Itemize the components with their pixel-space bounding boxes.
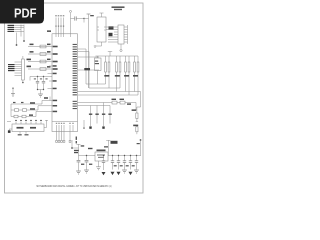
- resistor RP3b: [119, 56, 121, 88]
- wire J4 bottom ticks: [20, 132, 26, 134]
- schematic sheet border frame: [5, 3, 144, 193]
- ground VR1: [96, 167, 101, 170]
- label net RB right: [132, 109, 137, 111]
- connector J1 pin bars: [8, 25, 15, 32]
- wire J4 top ticks: [16, 122, 41, 125]
- wire crystal net: [30, 77, 52, 81]
- label pin 88.5: [53, 88, 57, 90]
- node J2 bottom dot: [22, 82, 24, 84]
- label VR1: [97, 150, 106, 152]
- ground CIN1: [76, 171, 81, 174]
- ground Y1: [94, 46, 96, 47]
- resistor RS2: [120, 101, 125, 104]
- resistor RP3a: [116, 56, 118, 92]
- label U2: [95, 61, 99, 65]
- wire J3 pin leads: [106, 27, 118, 42]
- node J5 net dot: [71, 147, 73, 149]
- node pad x103.5: [102, 126, 104, 128]
- wire regulator output bus: [108, 155, 141, 157]
- label J5 pin numbers: [56, 122, 74, 125]
- resistor RP2b: [108, 56, 110, 88]
- connector J2 pin bars: [8, 64, 15, 71]
- wire USB row3: [11, 112, 52, 117]
- label small under flag: [104, 146, 108, 147]
- ferrite FB3: [14, 115, 18, 118]
- label VIN: [81, 145, 93, 149]
- node J3 circle: [120, 49, 122, 51]
- resistor R1 row: [28, 46, 52, 48]
- wire USB shield stub: [7, 120, 11, 122]
- resistor RS1: [112, 101, 117, 104]
- label CB values: [114, 165, 135, 166]
- wire J2 top stub: [22, 56, 24, 59]
- resistor RB vertical: [136, 113, 138, 119]
- wire J1 pin leads: [14, 25, 24, 31]
- wire J1 vertical bus: [21, 25, 24, 41]
- power flag VIN: [77, 144, 81, 155]
- capacitor CB3: [124, 156, 126, 170]
- ground COUT1 dark: [102, 172, 106, 175]
- wire bus row y88: [89, 87, 120, 89]
- wire stub column x110: [109, 106, 111, 124]
- label VR1 inside text: [97, 154, 105, 158]
- wire stub x84: [83, 120, 85, 127]
- wire USB row1: [11, 101, 52, 105]
- wire RA bottom tick: [136, 132, 138, 134]
- label power stub: [137, 143, 140, 144]
- wire series row y102.5: [78, 103, 137, 111]
- wire RB bottom tick: [136, 119, 138, 122]
- ground CIN2: [84, 170, 89, 173]
- label U1 top pin numbers: [55, 15, 64, 26]
- ground CB2 dark: [117, 172, 121, 175]
- label stub x97: [95, 114, 98, 115]
- label stub x110: [108, 114, 111, 115]
- power flag left small: [12, 89, 14, 94]
- power flag rail VCC2: [108, 52, 112, 57]
- IC U1 body: [52, 34, 78, 132]
- label C2 C3: [34, 78, 48, 79]
- label vertical net left of regulator: [76, 137, 77, 144]
- wire VR1 gnd pin: [98, 161, 100, 167]
- oscillator Y1 body: [97, 17, 106, 42]
- resistor RP4b: [128, 56, 130, 95]
- node crystal dots: [37, 76, 38, 77]
- label sheet note text: [112, 6, 125, 10]
- connector J2 body: [22, 59, 25, 80]
- wire J4 right lead: [44, 120, 48, 127]
- label net 70: [84, 68, 90, 70]
- wire regulator input: [79, 155, 96, 157]
- label J5 nets: [74, 150, 79, 153]
- capacitor C1: [71, 18, 85, 20]
- IC U1 right pin name column: [73, 44, 77, 109]
- ground caps: [38, 94, 43, 97]
- wire U1 top pins: [56, 18, 64, 38]
- resistor RP5b: [137, 56, 139, 95]
- wire J3 bottom drop: [120, 44, 122, 49]
- power flag 3V3: [106, 140, 110, 155]
- wire bus row y91.5: [78, 92, 141, 108]
- label pin 81: [53, 80, 57, 82]
- label RP2: [104, 75, 109, 77]
- wire U1 right pin fanout to x86: [78, 49, 87, 84]
- resistor RP5a: [134, 56, 136, 92]
- wire C2 C3 join: [38, 90, 44, 94]
- resistor RA vertical: [136, 127, 138, 132]
- wire U2 bottom: [97, 71, 99, 85]
- wire J4 left lead: [9, 129, 12, 130]
- node C2 C3 dots2: [37, 89, 38, 90]
- label USB row1: [13, 102, 35, 104]
- wire stub column x97: [96, 106, 98, 124]
- wire stub column x90.5: [90, 106, 92, 127]
- node J5 pads: [56, 141, 71, 143]
- component K2 dark block: [109, 33, 113, 36]
- oscillator Y1 pin ticks: [97, 27, 106, 30]
- connector J3 body: [118, 25, 124, 44]
- label stub x103.5: [102, 114, 105, 115]
- wire U1 top pin 5: [70, 13, 72, 37]
- connector J5 pin ticks inside IC bottom: [57, 125, 74, 132]
- label U1: [47, 30, 51, 32]
- ground CB1 dark: [111, 172, 115, 175]
- power flag rail top: [87, 13, 91, 15]
- label rail: [90, 15, 94, 16]
- capacitor CIN2: [86, 156, 88, 170]
- power stub right edge: [140, 141, 142, 156]
- IC U1 left pin stub 73.5: [48, 73, 53, 75]
- label R3: [27, 59, 58, 63]
- wire IC feed stub: [49, 97, 51, 101]
- label pin 66: [53, 65, 57, 67]
- capacitor CB2: [118, 156, 120, 170]
- IC U1 left pin labels lower: [53, 100, 58, 113]
- wire U2 top: [97, 56, 99, 58]
- label USB row2: [30, 108, 35, 110]
- wire series row y105.5: [78, 105, 111, 107]
- label pin 73.5: [53, 73, 57, 75]
- node C1 junction: [83, 18, 84, 19]
- IC U1 left pin stub 66: [49, 65, 52, 67]
- wire net XTAL out: [78, 56, 100, 58]
- label RP4: [124, 75, 129, 77]
- label J4 bottom: [18, 134, 29, 135]
- label RS1 RS2: [112, 99, 132, 105]
- ferrite FB4: [22, 115, 26, 118]
- label USB row3: [29, 114, 33, 116]
- label R1: [30, 44, 58, 48]
- capacitor COUT1: [103, 156, 105, 171]
- label J4 top pin names: [15, 120, 42, 121]
- component K1 dark block: [109, 26, 114, 29]
- label R4: [27, 66, 58, 70]
- node CIN2 dot: [86, 155, 87, 156]
- wire stub column x103.5: [103, 103, 105, 127]
- connector J4 flat body: [12, 124, 44, 132]
- label R2: [30, 51, 58, 55]
- wire pull-up rail y56: [96, 55, 139, 57]
- wire J5 pins down: [57, 132, 71, 141]
- node testpoint dot: [16, 44, 18, 46]
- wire J5 net to regulator: [72, 140, 79, 148]
- ground left small: [11, 94, 15, 97]
- PDF badge: [0, 0, 44, 24]
- wire USB left bracket: [10, 104, 12, 117]
- wire Y1 bottom: [95, 42, 102, 46]
- regulator VR1 body: [95, 152, 108, 161]
- label RP5: [133, 75, 138, 77]
- page background: [0, 0, 149, 198]
- wire bus corner feed: [137, 107, 141, 113]
- capacitor C2 branch: [37, 77, 39, 90]
- label RP3: [115, 75, 120, 77]
- capacitor C3 branch: [43, 77, 45, 90]
- power flag VCC1: [70, 10, 72, 12]
- ferrite FB2: [23, 109, 27, 112]
- wire J3 right stubs: [124, 25, 128, 44]
- node COUT1 dot: [103, 155, 104, 156]
- svg-text:PDF: PDF: [14, 5, 37, 20]
- wire U1 right pin fanout to x89: [78, 52, 90, 89]
- label 3V3 dark: [111, 141, 118, 144]
- wire J1 drop: [16, 33, 18, 45]
- ground J4 pad: [8, 130, 11, 133]
- node pad x90.5: [89, 126, 91, 128]
- resistor R4 row: [28, 68, 52, 70]
- wire J2 bottom stub: [22, 80, 24, 82]
- capacitor CIN1: [78, 156, 80, 171]
- wire bus row y95: [78, 94, 139, 96]
- label IC feed pair: [44, 97, 48, 99]
- node J1 bus end dot: [23, 40, 25, 42]
- wire rail VBUS vertical: [88, 14, 90, 88]
- component U2 box: [95, 58, 102, 71]
- capacitor CB1: [112, 156, 114, 170]
- wire J2 pin leads: [15, 62, 22, 76]
- label J4 inside: [17, 127, 37, 129]
- label CIN: [81, 164, 92, 165]
- capacitor CB5: [136, 156, 138, 170]
- ground CB4 dark: [129, 172, 133, 175]
- resistor RP2a: [105, 56, 107, 84]
- IC U1 left pin stub 81: [49, 80, 52, 82]
- wire net label row 70: [78, 69, 100, 71]
- capacitor CB4: [130, 156, 132, 170]
- IC U1 internal separator: [52, 121, 78, 123]
- label net RA right: [133, 125, 138, 127]
- wire C1 to rail: [84, 19, 89, 23]
- IC U1 left pin stub 88.5: [48, 88, 53, 90]
- label stub x90.5: [89, 114, 92, 115]
- resistor R2 row: [28, 53, 52, 55]
- resistor RP4a: [125, 56, 127, 92]
- wire bus row y84: [86, 83, 106, 85]
- power flag crystal top: [100, 13, 104, 17]
- ground CB3 bars: [122, 170, 127, 173]
- wire USB row2: [11, 106, 52, 110]
- svg-text:MOTHERBOARD MAIN DIGITAL CAMER: MOTHERBOARD MAIN DIGITAL CAMERA - KIT TO…: [37, 184, 112, 188]
- node dot x84: [83, 127, 85, 129]
- ground CB5 bars: [134, 170, 139, 173]
- resistor R3 row: [28, 61, 52, 63]
- ferrite FB1: [15, 109, 19, 112]
